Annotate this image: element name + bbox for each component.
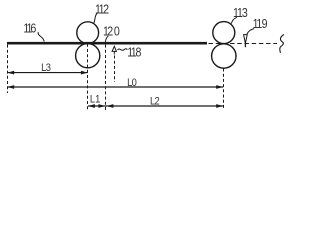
svg-text:120: 120 (103, 24, 120, 39)
svg-text:L1: L1 (90, 94, 101, 106)
svg-text:119: 119 (253, 16, 268, 31)
svg-text:L0: L0 (127, 77, 137, 89)
svg-text:L2: L2 (150, 96, 160, 108)
svg-text:L3: L3 (41, 62, 51, 74)
svg-text:112: 112 (95, 1, 109, 16)
svg-text:113: 113 (233, 5, 248, 20)
svg-text:116: 116 (23, 20, 36, 35)
svg-text:118: 118 (127, 44, 141, 59)
